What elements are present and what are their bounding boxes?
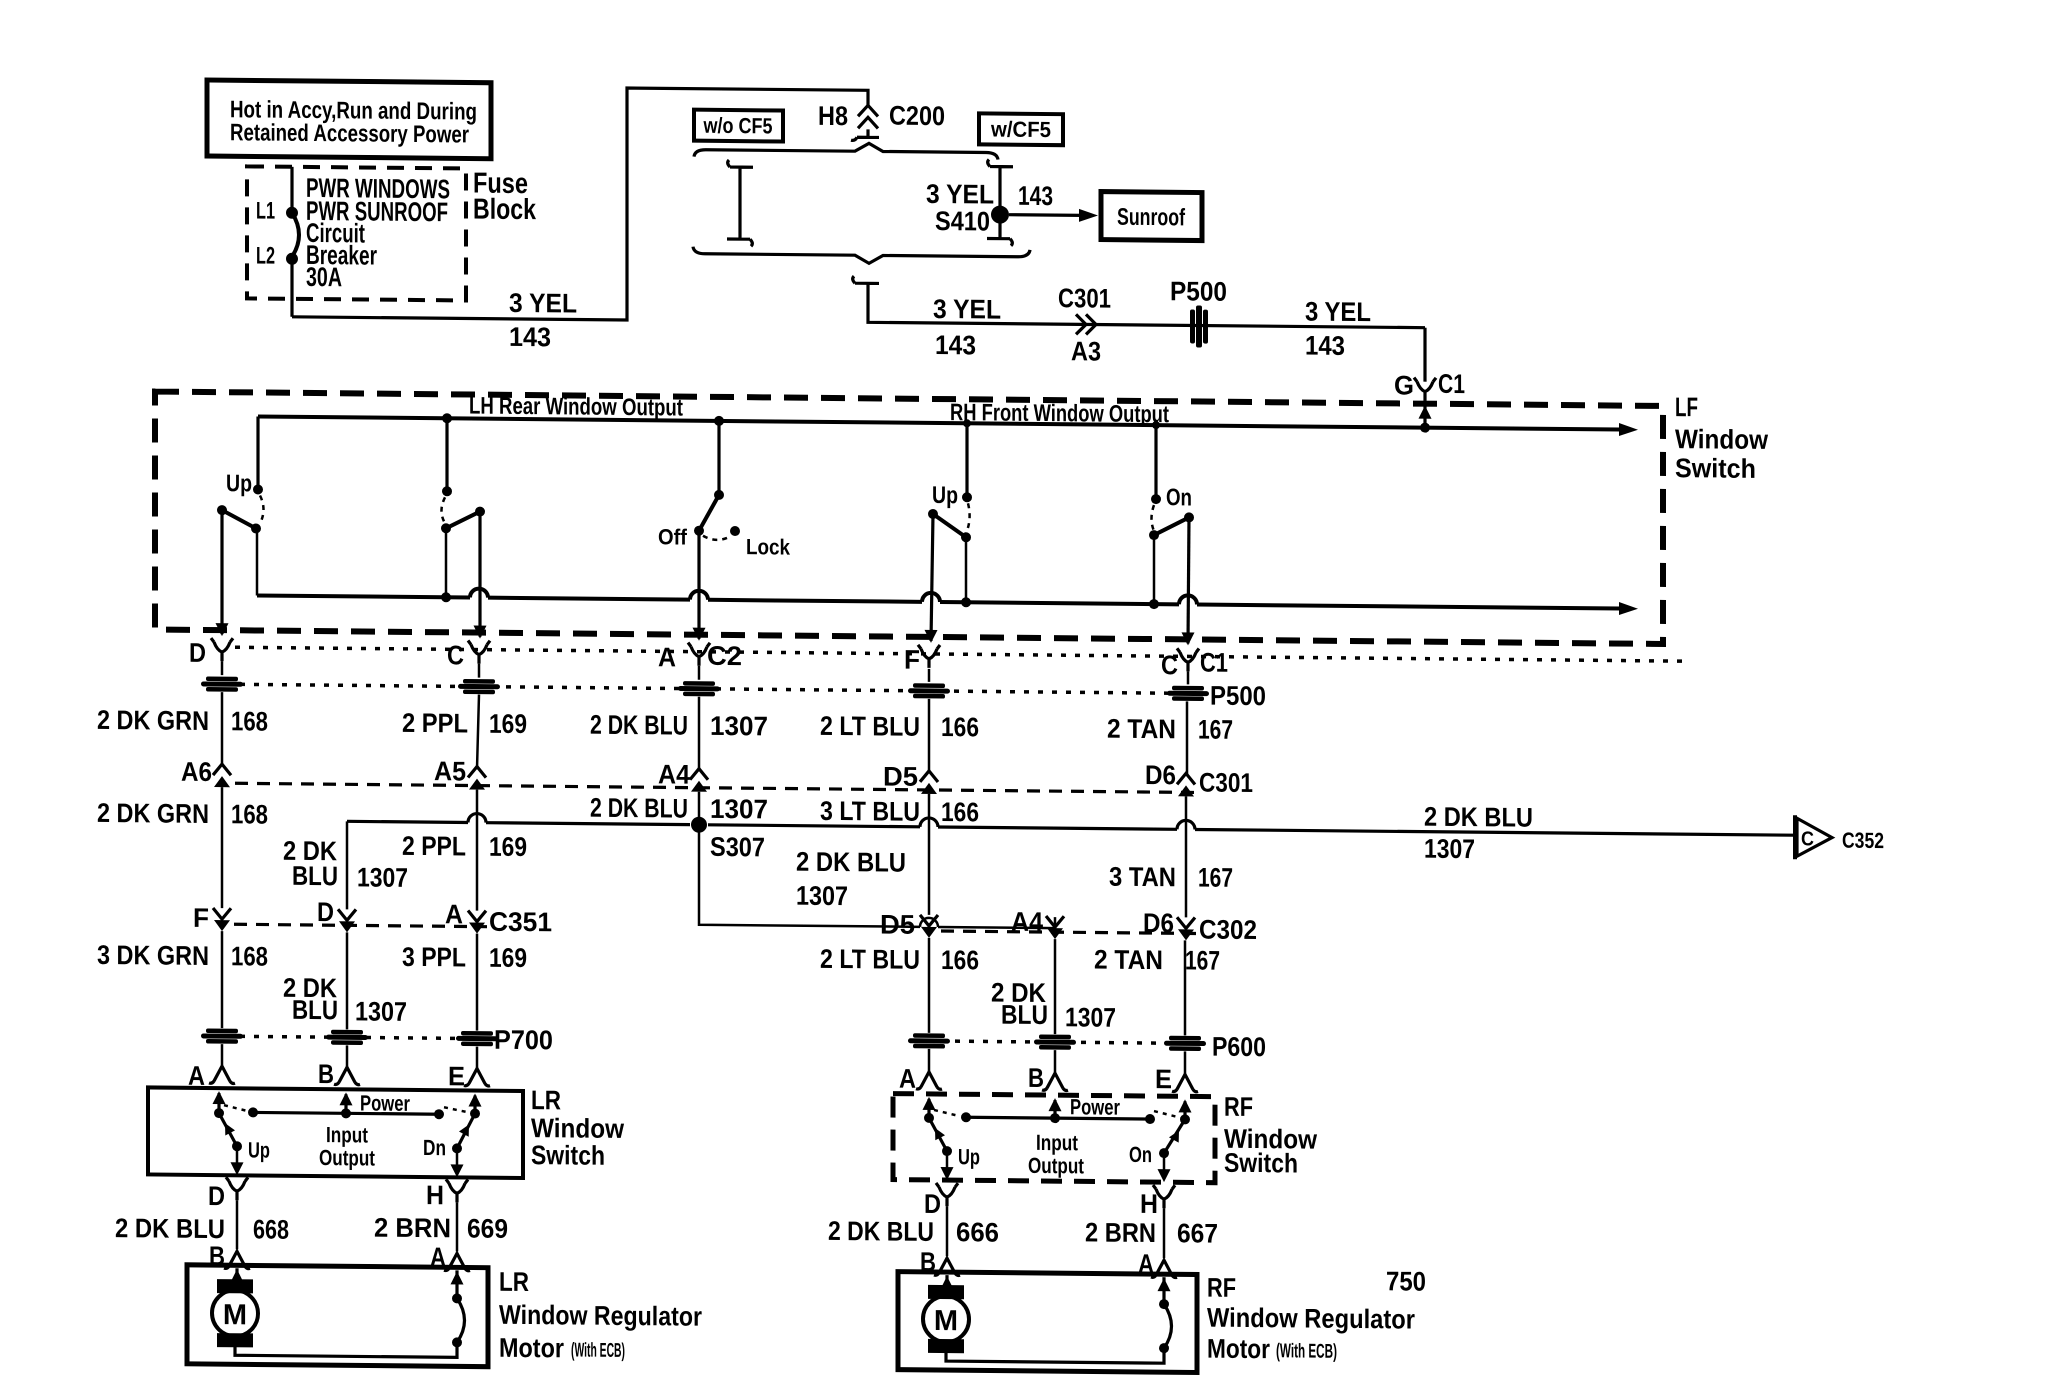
RF window switch box (dashed) — [893, 1094, 1215, 1183]
svg-text:L2: L2 — [256, 242, 275, 269]
LR switch blade D-Up — [219, 1113, 237, 1146]
svg-text:G: G — [1394, 370, 1414, 400]
svg-text:143: 143 — [1305, 331, 1345, 361]
svg-text:Lock: Lock — [746, 534, 791, 559]
svg-text:3 TAN: 3 TAN — [1109, 862, 1176, 893]
svg-text:2 BRN: 2 BRN — [374, 1213, 451, 1244]
svg-text:On: On — [1129, 1142, 1152, 1167]
svg-text:(With ECB): (With ECB) — [571, 1339, 625, 1362]
pin E RF switch — [1172, 1074, 1198, 1091]
junction bus bottom x1154 — [1149, 599, 1159, 609]
connector C301 pin A5 — [468, 766, 486, 789]
svg-text:D: D — [317, 897, 334, 927]
svg-text:143: 143 — [935, 330, 976, 360]
svg-text:A4: A4 — [658, 759, 690, 789]
svg-text:2 LT BLU: 2 LT BLU — [820, 944, 920, 975]
svg-text:Output: Output — [1028, 1153, 1085, 1179]
w/CF5 tag box — [979, 113, 1063, 145]
svg-text:2 PPL: 2 PPL — [402, 708, 468, 739]
wire 2 BRN 669 — [456, 1202, 459, 1251]
junction bus top / RH front switch feed — [963, 419, 971, 427]
grommet P600 LT BLU wire — [908, 1033, 950, 1048]
wire 3 YEL 143 from breaker — [292, 85, 868, 323]
svg-text:2 DK BLU: 2 DK BLU — [590, 710, 688, 741]
svg-text:C1: C1 — [1200, 648, 1228, 678]
connector pin D under RF switch — [936, 1183, 958, 1206]
svg-text:168: 168 — [231, 941, 268, 971]
svg-text:Dn: Dn — [423, 1135, 446, 1160]
grommet P700 DK BLU wire — [326, 1030, 368, 1045]
svg-text:E: E — [448, 1061, 465, 1091]
LR switch blade H-Dn — [457, 1113, 475, 1148]
connector C301 pin A6 — [213, 764, 231, 787]
LF window switch (dashed box) — [155, 391, 1663, 643]
svg-text:A3: A3 — [1071, 336, 1101, 366]
junction bus top / lock switch feed — [714, 416, 724, 426]
connector row C351 (dashed) — [234, 924, 487, 926]
switch LH rear window — [445, 418, 448, 491]
connector C2 pin D — [211, 638, 233, 661]
svg-text:C: C — [447, 640, 464, 670]
connector row C2 / C1 (dotted) — [235, 647, 1690, 661]
svg-text:w/o CF5: w/o CF5 — [703, 113, 773, 139]
svg-text:C302: C302 — [1199, 915, 1257, 946]
wire bus bottom — [257, 595, 1620, 608]
pin B LR motor — [224, 1251, 250, 1268]
svg-text:BLU: BLU — [292, 861, 338, 891]
power bus inside RF switch — [966, 1117, 1150, 1119]
connector C2 pin C — [468, 640, 490, 663]
splice S307 — [698, 792, 701, 825]
svg-text:LF: LF — [1675, 392, 1698, 422]
wire 2 DK BLU 668 — [236, 1200, 239, 1249]
svg-text:2 DK BLU: 2 DK BLU — [828, 1216, 934, 1247]
svg-text:166: 166 — [941, 797, 979, 827]
svg-text:F: F — [904, 645, 920, 675]
motor M symbol — [212, 1290, 258, 1336]
svg-text:D: D — [924, 1189, 941, 1219]
svg-text:3 YEL: 3 YEL — [933, 294, 1001, 325]
svg-text:C200: C200 — [889, 101, 945, 132]
junction bus top / LF switch feed — [1152, 421, 1160, 429]
RF switch blade D-Up — [929, 1118, 947, 1151]
wire S307 to C302 A4 — [699, 825, 1055, 928]
grommet P700 PPL wire — [456, 1031, 498, 1046]
connector C302 pin D5 — [920, 915, 938, 938]
hot feed label box — [207, 80, 491, 159]
pin B LR switch — [334, 1067, 360, 1084]
svg-text:A: A — [658, 642, 676, 672]
junction bus top / LH rear switch feed — [442, 413, 452, 423]
grommet P700 DK GRN wire — [201, 1028, 243, 1043]
svg-text:B: B — [318, 1059, 334, 1089]
svg-text:A: A — [445, 899, 463, 929]
connector C2 pin A — [688, 643, 710, 666]
svg-text:H: H — [1140, 1189, 1158, 1219]
svg-text:Up: Up — [248, 1137, 270, 1162]
svg-text:C: C — [1161, 650, 1178, 680]
alternate wiring bar (w/o CF5) — [727, 160, 753, 246]
wire switch output A — [697, 531, 700, 639]
RF switch blade H-On — [1164, 1119, 1185, 1153]
connector C200 pin H8 — [851, 105, 879, 140]
svg-text:A4: A4 — [1011, 907, 1043, 937]
svg-text:D5: D5 — [880, 909, 915, 939]
svg-text:167: 167 — [1198, 863, 1233, 893]
svg-text:166: 166 — [941, 712, 979, 742]
ECB breaker inside motor — [1162, 1277, 1165, 1303]
pins into LR switch A B E — [222, 1044, 477, 1067]
grommet row P700 (dotted) — [240, 1036, 487, 1038]
svg-text:2 DK GRN: 2 DK GRN — [97, 798, 209, 829]
grommet P500 (dash panel) — [1190, 305, 1208, 347]
wire 2 DK BLU 1307 main run to C352 — [347, 821, 1793, 835]
wire switch output C — [478, 512, 481, 637]
svg-text:2 LT BLU: 2 LT BLU — [820, 711, 920, 742]
svg-text:Switch: Switch — [1224, 1148, 1298, 1179]
svg-text:H8: H8 — [818, 101, 848, 131]
wire 2 LT BLU 166 — [928, 794, 931, 915]
junction bus bottom x446 — [441, 592, 451, 602]
grommet P500 pin D wire — [201, 676, 243, 691]
connector pin H under RF switch — [1153, 1185, 1175, 1208]
svg-text:Motor: Motor — [1207, 1334, 1270, 1365]
connector C301 pin D6 — [1177, 773, 1195, 796]
svg-text:668: 668 — [253, 1214, 289, 1244]
svg-text:Up: Up — [932, 482, 958, 509]
svg-text:3 YEL: 3 YEL — [509, 288, 577, 319]
svg-text:LR: LR — [499, 1267, 529, 1297]
connector C351 pin D — [338, 909, 356, 932]
svg-text:(With ECB): (With ECB) — [1276, 1340, 1337, 1363]
connector C1 pin F — [918, 645, 940, 668]
svg-text:1307: 1307 — [796, 881, 848, 911]
svg-text:3 YEL: 3 YEL — [1305, 297, 1371, 328]
svg-text:Retained Accessory Power: Retained Accessory Power — [230, 119, 469, 148]
svg-text:2 DK BLU: 2 DK BLU — [796, 847, 906, 878]
LR window regulator motor box — [187, 1265, 488, 1367]
svg-text:P500: P500 — [1170, 276, 1227, 307]
wire 3 TAN 167 — [1185, 796, 1188, 917]
svg-text:Input: Input — [1036, 1130, 1079, 1155]
svg-text:C2: C2 — [707, 641, 742, 671]
svg-text:S307: S307 — [710, 832, 765, 863]
svg-text:1307: 1307 — [355, 996, 407, 1026]
brace lower — [693, 247, 1030, 265]
svg-text:168: 168 — [231, 706, 268, 736]
grommet row P500 (dotted) — [240, 684, 1205, 693]
svg-text:168: 168 — [231, 799, 268, 829]
svg-text:2 DK BLU: 2 DK BLU — [115, 1213, 225, 1244]
svg-text:A6: A6 — [181, 757, 212, 787]
switch lock Off/Lock — [717, 421, 720, 495]
svg-text:M: M — [223, 1299, 247, 1331]
svg-text:1307: 1307 — [710, 794, 768, 825]
svg-text:Up: Up — [958, 1144, 980, 1169]
wires down to P700 row — [222, 931, 477, 1030]
svg-text:2 BRN: 2 BRN — [1085, 1217, 1156, 1248]
connector C302 pin A4 — [1046, 916, 1064, 939]
svg-text:667: 667 — [1177, 1218, 1218, 1248]
svg-text:2 DK BLU: 2 DK BLU — [1424, 802, 1533, 833]
wire 2 PPL 169 — [476, 790, 479, 911]
svg-text:Window: Window — [1675, 424, 1769, 455]
svg-text:B: B — [1028, 1063, 1044, 1093]
brace upper — [694, 142, 998, 160]
svg-text:C301: C301 — [1199, 768, 1253, 799]
svg-text:169: 169 — [489, 832, 527, 862]
grommet P600 DK BLU wire — [1034, 1034, 1076, 1049]
svg-text:3 DK GRN: 3 DK GRN — [97, 940, 209, 971]
arrow to sunroof — [1009, 213, 1082, 217]
pins into RF switch A B E — [929, 1049, 1185, 1073]
svg-text:143: 143 — [1018, 181, 1053, 211]
junction bus bottom x966 — [961, 597, 971, 607]
connector pin H under LR switch — [446, 1179, 468, 1202]
grommet P500 pin C wire — [458, 679, 500, 694]
svg-text:P600: P600 — [1212, 1032, 1266, 1063]
pin E LR switch — [464, 1068, 490, 1085]
svg-text:1307: 1307 — [710, 711, 768, 742]
svg-text:C301: C301 — [1058, 283, 1111, 314]
connector C301 pin D5 — [920, 771, 938, 794]
svg-text:169: 169 — [489, 709, 527, 739]
svg-text:On: On — [1166, 484, 1192, 511]
svg-text:167: 167 — [1198, 715, 1233, 745]
svg-text:Power: Power — [360, 1090, 410, 1115]
sunroof box — [1101, 192, 1202, 241]
svg-text:A5: A5 — [434, 756, 466, 786]
ECB breaker inside motor — [455, 1270, 458, 1297]
svg-text:Output: Output — [319, 1145, 376, 1171]
motor M symbol — [923, 1296, 969, 1342]
pin A RF motor — [1151, 1260, 1177, 1277]
RF switch Up contact — [924, 1113, 934, 1123]
svg-text:Switch: Switch — [1675, 453, 1756, 484]
LR switch Up contact — [214, 1108, 224, 1118]
w/o CF5 tag box — [694, 110, 783, 142]
grommet P500 pin F wire — [908, 683, 950, 698]
wire 2 DK BLU 666 — [946, 1206, 949, 1256]
wire switch output C (C1) — [1188, 517, 1189, 643]
svg-text:1307: 1307 — [357, 862, 408, 892]
svg-text:666: 666 — [956, 1217, 999, 1247]
power bus inside LR switch — [253, 1112, 439, 1114]
wire bus top (window outputs) — [258, 416, 1620, 429]
svg-text:C351: C351 — [489, 907, 552, 938]
svg-text:3 YEL: 3 YEL — [926, 179, 994, 210]
wire 2 BRN 667 — [1163, 1208, 1166, 1258]
svg-text:Motor: Motor — [499, 1333, 564, 1364]
svg-text:2 DK GRN: 2 DK GRN — [97, 705, 209, 736]
svg-text:Sunroof: Sunroof — [1117, 204, 1186, 232]
svg-text:3 PPL: 3 PPL — [402, 942, 466, 973]
grommet P500 pin A wire — [678, 681, 720, 696]
svg-text:Input: Input — [326, 1122, 369, 1147]
grommet P600 TAN wire — [1164, 1036, 1206, 1051]
connector row C302 (dashed) — [941, 931, 1196, 933]
svg-text:S410: S410 — [935, 206, 990, 237]
wire below brace to C301 — [853, 276, 1425, 327]
svg-text:D6: D6 — [1145, 760, 1176, 790]
svg-text:169: 169 — [489, 943, 527, 973]
svg-text:1307: 1307 — [1065, 1002, 1116, 1032]
svg-text:BLU: BLU — [1001, 1000, 1048, 1030]
wire 2 DK BLU 1307 left branch — [346, 821, 349, 909]
svg-text:D: D — [208, 1181, 225, 1211]
pin A LR motor — [444, 1253, 470, 1270]
pin A LR switch — [209, 1066, 235, 1083]
svg-text:Switch: Switch — [531, 1140, 605, 1171]
splice S410 — [991, 206, 1009, 224]
alternate wiring bar (w/CF5) — [987, 159, 1013, 245]
connector C1 pin C — [1177, 648, 1199, 671]
svg-text:E: E — [1155, 1064, 1172, 1094]
svg-text:2 PPL: 2 PPL — [402, 831, 466, 862]
svg-text:M: M — [934, 1305, 958, 1337]
svg-text:RF: RF — [1207, 1273, 1236, 1303]
LR switch Dn contact — [470, 1109, 480, 1119]
svg-text:BLU: BLU — [292, 995, 338, 1025]
RF window regulator motor box — [898, 1272, 1197, 1373]
connector row C301 (dashed) — [235, 783, 1196, 792]
svg-text:2 DK BLU: 2 DK BLU — [590, 793, 688, 824]
circuit breaker 30A — [290, 167, 293, 209]
svg-text:2 TAN: 2 TAN — [1094, 945, 1163, 976]
svg-text:167: 167 — [1185, 945, 1220, 975]
pin B RF motor — [934, 1258, 960, 1275]
svg-text:D: D — [189, 638, 206, 668]
svg-text:RF: RF — [1224, 1092, 1253, 1122]
svg-text:669: 669 — [467, 1213, 508, 1243]
svg-text:A: A — [899, 1064, 916, 1094]
svg-text:C352: C352 — [1842, 828, 1884, 853]
svg-text:750: 750 — [1386, 1266, 1426, 1296]
connector C301 pin A4 — [690, 769, 708, 792]
svg-text:Off: Off — [658, 524, 688, 549]
svg-text:Block: Block — [473, 194, 537, 227]
connector C351 pin F — [213, 908, 231, 931]
svg-text:L1: L1 — [256, 197, 275, 224]
svg-text:D5: D5 — [883, 761, 918, 791]
svg-text:30A: 30A — [306, 262, 342, 292]
wire 2 DK GRN 168 — [221, 787, 224, 908]
svg-text:166: 166 — [941, 945, 979, 975]
svg-text:LR: LR — [531, 1085, 561, 1115]
svg-text:Up: Up — [226, 470, 252, 497]
wire switch output D — [220, 510, 223, 634]
connector C352 pin C (triangle) — [1793, 815, 1797, 859]
svg-text:P500: P500 — [1210, 681, 1266, 712]
svg-text:P700: P700 — [494, 1025, 553, 1056]
fuse block (dashed) — [247, 166, 466, 300]
svg-text:D6: D6 — [1143, 908, 1174, 938]
wire down to LF switch pin G — [1423, 328, 1426, 382]
RF switch On contact — [1180, 1114, 1190, 1124]
pin B RF switch — [1042, 1073, 1068, 1090]
svg-text:H: H — [426, 1180, 444, 1210]
svg-text:w/CF5: w/CF5 — [990, 117, 1051, 143]
grommet row P600 (dotted) — [941, 1041, 1205, 1044]
LR window switch box — [148, 1087, 523, 1178]
grommet P500 pin C wire — [1167, 686, 1209, 701]
connector C301 pin A3 — [1076, 314, 1096, 334]
svg-text:C1: C1 — [1438, 369, 1465, 399]
svg-text:F: F — [193, 903, 209, 933]
svg-text:143: 143 — [509, 322, 551, 352]
svg-text:Power: Power — [1070, 1094, 1120, 1119]
svg-text:3 LT BLU: 3 LT BLU — [820, 796, 920, 827]
svg-text:C: C — [1801, 828, 1814, 850]
connector C302 pin D6 — [1177, 917, 1195, 940]
connector C351 pin A — [468, 910, 486, 933]
wire switch output F — [931, 514, 933, 641]
svg-text:1307: 1307 — [1424, 834, 1475, 864]
svg-text:Window Regulator: Window Regulator — [499, 1300, 702, 1332]
svg-text:Window Regulator: Window Regulator — [1207, 1303, 1415, 1335]
pin A RF switch — [916, 1072, 942, 1089]
connector pin D under LR switch — [226, 1177, 248, 1200]
svg-text:2 TAN: 2 TAN — [1107, 714, 1176, 745]
